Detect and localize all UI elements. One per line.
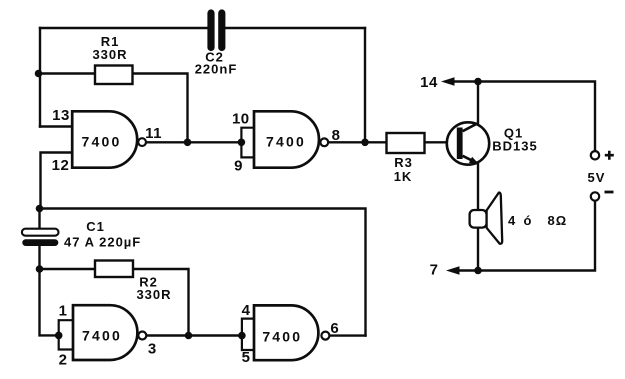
junction node gate 3 inputs (55, 332, 63, 340)
wire left vertical from top rail to pin 13 (39, 28, 41, 127)
svg-text:7400: 7400 (82, 134, 122, 150)
wire R2 right lead down to gate 3 output node (133, 269, 189, 336)
svg-text:BD135: BD135 (492, 139, 537, 154)
wire gate 1 output to gate 2 inputs (146, 141, 241, 143)
NAND gate U1c 7400 (pins 1,2 -> 3) (73, 305, 146, 360)
wire speaker to bottom rail (477, 228, 479, 271)
svg-text:11: 11 (145, 125, 162, 142)
svg-text:ó: ó (524, 213, 533, 228)
junction node C1 bottom / R2 (36, 265, 44, 273)
svg-text:8Ω: 8Ω (548, 213, 568, 228)
svg-text:9: 9 (234, 158, 243, 175)
wire R3 to transistor base (425, 141, 457, 143)
wire positive supply rail (478, 82, 595, 152)
svg-text:220nF: 220nF (195, 61, 238, 76)
svg-text:330R: 330R (92, 47, 127, 62)
svg-text:6: 6 (330, 320, 339, 337)
wire gate 4 output to feedback corner (330, 334, 366, 336)
wire gate 3 output to gate 4 inputs (146, 334, 242, 336)
junction node gate 4 inputs (238, 332, 246, 340)
transistor Q1 BD135 (447, 122, 538, 164)
svg-text:3: 3 (148, 341, 157, 358)
resistor R3 (387, 133, 425, 184)
wire feedback from node C to gate 4 output (40, 209, 366, 336)
wire negative supply rail (478, 201, 595, 271)
wire pin 13 input (40, 125, 73, 127)
wire top rail left of C2 (40, 27, 207, 29)
wire R2 left lead (40, 268, 96, 270)
speaker LS1 (470, 193, 568, 244)
NAND gate U1a 7400 (pins 13,12 -> 11) (72, 111, 146, 167)
wire R1 left lead (39, 72, 96, 74)
svg-text:C1: C1 (86, 219, 105, 234)
svg-text:2: 2 (59, 352, 68, 369)
svg-text:12: 12 (52, 157, 70, 174)
gate 3 input tie bracket (59, 320, 73, 349)
pin 7 arrow (446, 266, 460, 274)
junction node gate 2 output / C2 (361, 139, 369, 147)
resistor R1 (92, 34, 132, 84)
wire top rail right of C2 (226, 27, 366, 29)
wire emitter down to speaker (477, 163, 479, 210)
capacitor C1 (22, 219, 141, 249)
junction node gate 1 output / R1 (184, 139, 192, 147)
svg-text:5: 5 (242, 349, 251, 366)
wire node D up to top rail (364, 28, 366, 142)
junction node gate 2 inputs (238, 139, 246, 147)
svg-text:7400: 7400 (82, 327, 122, 343)
pin 14 arrow (441, 77, 455, 85)
junction node gate 3 output / R2 (185, 332, 193, 340)
svg-text:47 A 220µF: 47 A 220µF (64, 234, 141, 249)
wire collector up to pin 14 node (477, 82, 479, 123)
svg-text:5V: 5V (588, 170, 606, 185)
wire gate 2 output to R3 (328, 141, 386, 143)
wire pin 7 arrow stem (459, 269, 479, 271)
svg-text:R3: R3 (394, 155, 413, 170)
wire C1 top lead (38, 209, 40, 229)
svg-text:4: 4 (242, 302, 251, 319)
svg-text:8: 8 (332, 127, 341, 144)
wire pin 12 input down to node C (41, 153, 73, 209)
battery negative terminal (591, 192, 614, 201)
svg-text:1K: 1K (394, 169, 413, 184)
gate 4 input tie bracket (242, 319, 254, 350)
wire R1 right lead down to gate 1 output node (133, 74, 188, 143)
svg-text:7400: 7400 (266, 134, 306, 150)
wire pin 14 arrow stem (454, 80, 479, 82)
svg-text:4: 4 (508, 213, 516, 228)
NAND gate U1d 7400 (pins 4,5 -> 6) (254, 305, 329, 360)
svg-text:7: 7 (430, 262, 439, 279)
battery positive terminal (591, 151, 614, 160)
svg-text:7400: 7400 (262, 329, 302, 345)
junction node collector / pin 14 (474, 78, 482, 86)
svg-text:330R: 330R (136, 287, 171, 302)
svg-text:10: 10 (232, 111, 250, 128)
wire C1 node down to gate 3 inputs (40, 269, 59, 335)
junction node emitter rail / pin 7 (474, 267, 482, 275)
junction node R1/gate1 inputs (35, 70, 43, 78)
resistor R2 (95, 261, 172, 303)
svg-text:1: 1 (59, 303, 68, 320)
junction node C1 top / feedback (36, 205, 44, 213)
NAND gate U1b 7400 (pins 10,9 -> 8) (254, 111, 328, 167)
gate 2 input tie bracket (241, 128, 254, 158)
svg-text:13: 13 (52, 107, 70, 124)
capacitor C2 (195, 13, 238, 76)
svg-text:14: 14 (420, 74, 438, 91)
wire C1 bottom lead (38, 246, 40, 269)
